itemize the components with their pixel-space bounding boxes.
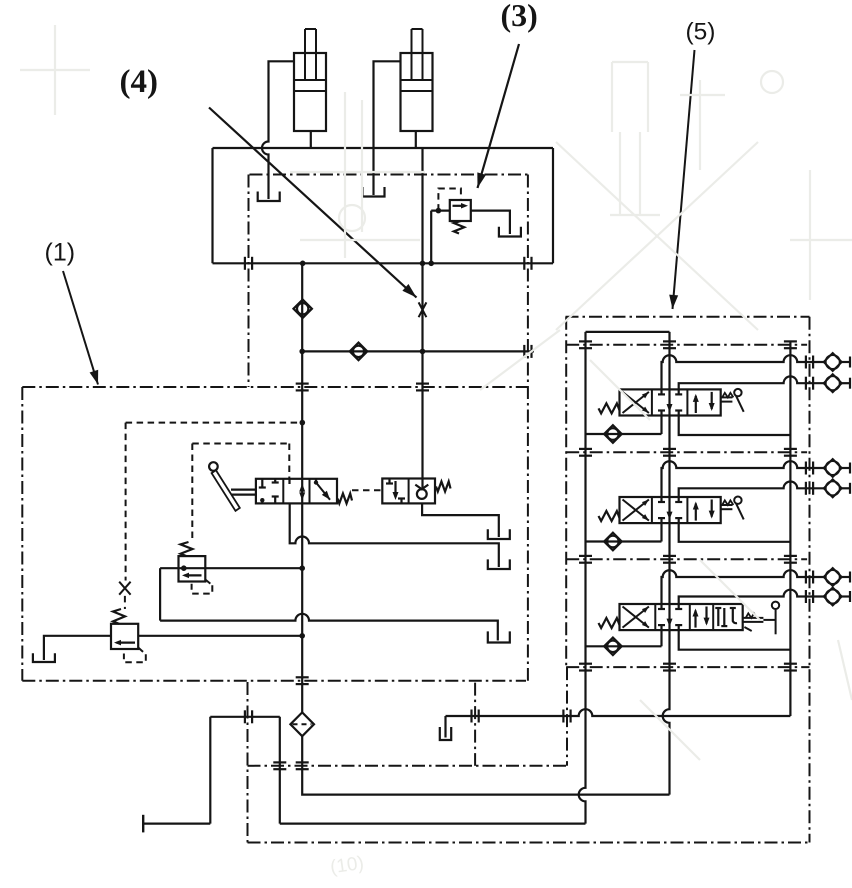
svg-text:(3): (3): [501, 0, 538, 33]
svg-text:(1): (1): [45, 239, 76, 267]
svg-text:(5): (5): [686, 19, 716, 46]
svg-text:(4): (4): [120, 64, 158, 100]
